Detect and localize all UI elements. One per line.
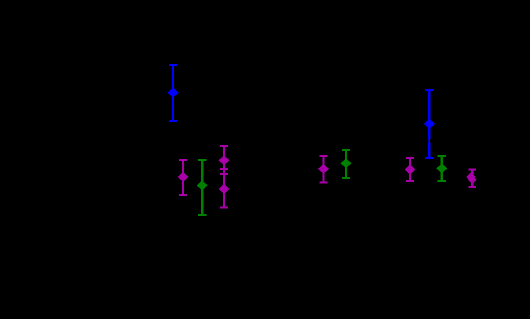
magenta errorbar point M2a (upper of stacked pair)	[219, 145, 230, 175]
magenta errorbar point M1	[178, 159, 189, 196]
magenta errorbar point M3	[318, 155, 329, 183]
blue errorbar point B1	[167, 64, 178, 122]
green errorbar point G3	[436, 155, 447, 182]
blue errorbar point B2 (two overlapped bars)	[424, 89, 435, 159]
magenta errorbar point M4	[405, 157, 416, 182]
green errorbar point G2	[341, 149, 352, 179]
green errorbar point G1	[197, 159, 208, 216]
magenta errorbar point M2b (lower of stacked pair)	[219, 168, 230, 208]
magenta errorbar point M5	[466, 169, 476, 188]
